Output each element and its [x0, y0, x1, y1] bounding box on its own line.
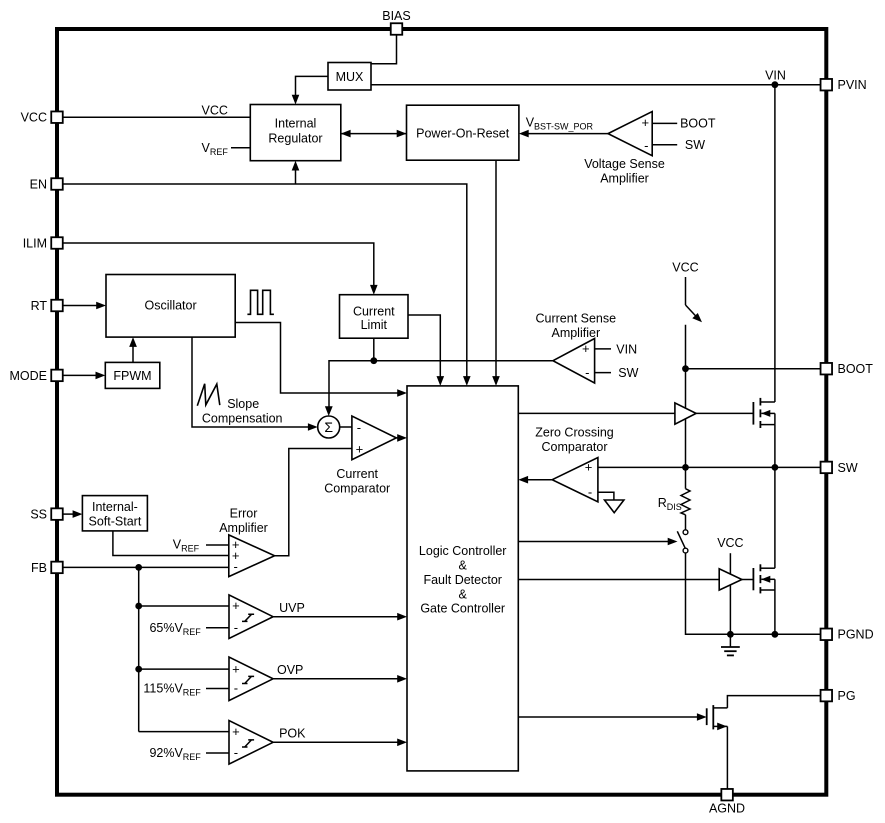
svg-text:Error: Error: [230, 507, 258, 521]
pin MODE: [10, 369, 63, 383]
svg-text:SW: SW: [618, 366, 638, 380]
pin SS: [30, 508, 62, 522]
svg-text:+: +: [356, 441, 364, 456]
svg-text:-: -: [644, 138, 648, 153]
svg-text:MODE: MODE: [10, 369, 48, 383]
svg-text:Regulator: Regulator: [268, 131, 322, 145]
node BOOT junction: [682, 365, 689, 372]
svg-text:ILIM: ILIM: [23, 236, 47, 250]
pin PVIN: [821, 78, 867, 92]
svg-text:Voltage Sense: Voltage Sense: [584, 157, 665, 171]
wire MODE to FPWM: [63, 372, 106, 380]
wire CSA - input SW: [595, 366, 639, 380]
wire high-side driver to Q1 gate: [696, 412, 753, 414]
pin RT: [31, 299, 63, 313]
op-amp Voltage Sense Amplifier: [584, 112, 665, 186]
svg-text:+: +: [585, 460, 593, 475]
wire logic to low-side driver: [518, 579, 719, 581]
svg-text:VCC: VCC: [21, 111, 47, 125]
svg-text:Zero Crossing: Zero Crossing: [535, 426, 614, 440]
fpwm FPWM: [105, 362, 160, 388]
svg-text:FPWM: FPWM: [113, 369, 151, 383]
switch VCC boot switch: [686, 305, 703, 322]
wire CSA output line to summing node: [325, 361, 553, 416]
svg-text:SW: SW: [685, 138, 705, 152]
wire error amp output to Current Comparator + input: [275, 449, 352, 556]
svg-text:EN: EN: [30, 177, 47, 191]
wire VSA + input BOOT: [652, 117, 716, 131]
switch discharge switch: [677, 530, 688, 553]
current limit block: [340, 295, 409, 339]
svg-text:+: +: [582, 341, 590, 356]
wire Current Limit to logic controller: [408, 315, 444, 386]
pin VCC: [21, 111, 63, 125]
svg-text:UVP: UVP: [279, 601, 305, 615]
wire Internal-Soft-Start to error amp middle input: [113, 531, 229, 556]
pin BOOT: [821, 362, 874, 376]
svg-text:Logic Controller: Logic Controller: [419, 544, 507, 558]
svg-text:-: -: [234, 620, 238, 635]
svg-text:Soft-Start: Soft-Start: [89, 514, 142, 528]
pin FB: [31, 561, 63, 575]
ground signal ground ZCC: [605, 500, 624, 513]
soft start block Internal-Soft-Start: [82, 496, 147, 531]
pin ILIM: [23, 236, 63, 250]
wire SW rail: [598, 466, 821, 468]
wire CSA + input VIN: [595, 342, 638, 356]
wire EN to Internal Regulator bottom: [292, 161, 300, 184]
transistor Q2 low-side MOSFET: [753, 467, 775, 634]
svg-text:Comparator: Comparator: [324, 481, 390, 495]
svg-text:Current Sense: Current Sense: [535, 311, 616, 325]
svg-text:Current: Current: [353, 305, 395, 319]
wire Oscillator slope output to summing node: [192, 337, 318, 431]
wire low-side driver to Q2 gate: [742, 579, 754, 581]
svg-text:OVP: OVP: [277, 663, 303, 677]
wire VCC pin to Internal Regulator: [63, 104, 251, 118]
wire logic to Q3 gate: [518, 713, 706, 721]
wire OVP output to logic controller: [273, 663, 407, 683]
wire FPWM to Oscillator: [129, 337, 137, 362]
svg-text:BOOT: BOOT: [838, 362, 874, 376]
ground power ground symbol: [721, 634, 740, 655]
node VIN junction: [765, 68, 786, 88]
wire FB branch to POK + input: [139, 731, 229, 733]
svg-text:POK: POK: [279, 727, 306, 741]
wire Internal Regulator to Power-On-Reset (bidirectional): [341, 130, 407, 138]
svg-text:-: -: [234, 559, 238, 574]
svg-text:+: +: [232, 724, 240, 739]
por U2 Power-On-Reset: [407, 105, 519, 160]
mux MUX: [328, 63, 371, 91]
op-amp Current Sense Amplifier: [535, 311, 616, 383]
svg-text:PG: PG: [838, 689, 856, 703]
wire Current Comparator output to logic controller: [396, 434, 407, 442]
svg-text:PGND: PGND: [838, 628, 874, 642]
svg-text:Compensation: Compensation: [202, 411, 283, 425]
svg-text:Slope: Slope: [227, 397, 259, 411]
pin PGND: [821, 628, 874, 642]
svg-text:RT: RT: [31, 299, 48, 313]
svg-text:Gate Controller: Gate Controller: [420, 602, 505, 616]
svg-text:VIN: VIN: [765, 68, 786, 82]
node PGND junction driver: [727, 631, 734, 638]
svg-text:VCC: VCC: [202, 104, 228, 118]
wire BOOT rail to BOOT pin: [686, 368, 821, 370]
wire SW to RDIS: [685, 467, 687, 488]
svg-text:Comparator: Comparator: [542, 440, 608, 454]
wire VCC to PGND rail through driver: [729, 553, 731, 634]
svg-text:AGND: AGND: [709, 802, 745, 816]
svg-text:-: -: [234, 745, 238, 760]
svg-text:-: -: [234, 681, 238, 696]
wire 65% VREF to UVP - input: [149, 621, 229, 637]
svg-text:Internal: Internal: [275, 116, 317, 130]
wire BIAS to MUX: [371, 35, 397, 64]
wire FB branch to UVP + input: [135, 603, 229, 610]
svg-text:Power-On-Reset: Power-On-Reset: [416, 126, 510, 140]
svg-text:BIAS: BIAS: [382, 9, 411, 23]
svg-text:-: -: [588, 485, 592, 500]
svg-text:VCC: VCC: [672, 260, 698, 274]
comparator UVP: [229, 595, 273, 639]
wire 92% VREF to POK - input: [149, 746, 229, 762]
svg-text:Amplifier: Amplifier: [219, 521, 268, 535]
node SW junction FET: [772, 464, 779, 471]
wire FB to error amp - input: [63, 566, 229, 568]
slope compensation sawtooth symbol: [197, 384, 282, 426]
wire VIN vertical to Q1 drain: [774, 85, 776, 402]
node SW junction RDIS: [682, 464, 689, 471]
comparator OVP: [229, 657, 273, 701]
svg-text:Internal-: Internal-: [92, 500, 138, 514]
svg-text:SS: SS: [30, 508, 47, 522]
node PGND junction FET: [772, 631, 779, 638]
wire SS to Internal-Soft-Start: [63, 510, 83, 518]
pin SW: [821, 461, 858, 475]
svg-text:VCC: VCC: [717, 536, 743, 550]
svg-text:PVIN: PVIN: [838, 78, 867, 92]
wire VCC stub: [685, 277, 687, 305]
wire logic to discharge switch: [518, 538, 677, 546]
wire Oscillator clock to logic controller: [235, 323, 407, 397]
svg-text:SW: SW: [838, 461, 858, 475]
comparator Zero Crossing Comparator: [535, 426, 614, 502]
wire MUX to PVIN (VIN rail): [371, 84, 821, 86]
svg-text:MUX: MUX: [336, 70, 364, 84]
wire POK output to logic controller: [273, 727, 407, 747]
pin BIAS: [382, 9, 411, 35]
wire RDIS to discharge switch: [685, 515, 687, 530]
logic controller block: [407, 386, 518, 771]
wire sigma to Current Comparator: [340, 426, 352, 428]
node junction Current Limit / CSA: [370, 357, 377, 364]
pin EN: [30, 177, 63, 191]
svg-text:BOOT: BOOT: [680, 117, 716, 131]
clock pulse symbol: [247, 290, 274, 314]
wire VREF to Internal Regulator: [202, 141, 251, 157]
oscillator OSC: [106, 275, 235, 338]
svg-text:-: -: [585, 365, 589, 380]
wire ZCC output to logic controller: [518, 476, 552, 484]
regulator U1 Internal Regulator: [250, 105, 340, 161]
wire VSA - input SW: [652, 138, 705, 152]
summing node sigma: [318, 416, 340, 438]
wire Q3 drain to PG pin: [727, 696, 820, 708]
svg-text:Current: Current: [336, 467, 378, 481]
node FB junction: [135, 564, 142, 571]
driver high-side gate driver: [675, 403, 696, 424]
comparator POK: [229, 721, 273, 765]
transistor Q1 high-side MOSFET: [753, 398, 775, 468]
wire Q3 source to AGND pin: [726, 726, 728, 789]
svg-text:Σ: Σ: [324, 419, 333, 435]
svg-text:Amplifier: Amplifier: [600, 172, 649, 186]
driver low-side gate driver: [719, 569, 742, 590]
svg-text:+: +: [232, 661, 240, 676]
svg-text:Amplifier: Amplifier: [551, 326, 600, 340]
wire FB branch to OVP + input: [135, 666, 229, 673]
svg-text:Oscillator: Oscillator: [145, 299, 197, 313]
wire 115% VREF to OVP - input: [143, 682, 229, 698]
wire logic to high-side driver: [518, 412, 675, 414]
pin PG: [821, 689, 856, 703]
svg-text:Limit: Limit: [361, 318, 388, 332]
wire POR output down to logic controller: [492, 160, 500, 386]
wire RT to Oscillator: [63, 302, 106, 310]
svg-text:VIN: VIN: [616, 342, 637, 356]
wire EN line: [63, 184, 471, 386]
svg-text:+: +: [232, 598, 240, 613]
wire UVP output to logic controller: [273, 601, 407, 621]
svg-text:Fault Detector: Fault Detector: [423, 573, 502, 587]
wire FB sense tree vertical: [138, 567, 140, 731]
wire ILIM to Current Limit: [63, 243, 378, 295]
svg-text:FB: FB: [31, 561, 47, 575]
svg-text:-: -: [357, 420, 361, 435]
wire boot switch to BOOT rail: [685, 325, 687, 468]
wire VREF to error amp + input: [173, 538, 229, 554]
wire VSA output to Power-On-Reset: [519, 115, 608, 137]
wire MUX to Internal Regulator: [292, 76, 328, 104]
transistor Q3 power good MOSFET: [707, 705, 728, 730]
svg-text:&: &: [459, 587, 468, 601]
comparator Current Comparator: [324, 416, 396, 495]
wire Current Limit bottom to CSA line: [373, 338, 375, 361]
op-amp Error Amplifier: [219, 507, 274, 577]
pin AGND: [709, 789, 745, 816]
wire ZCC - input to ground: [598, 492, 614, 500]
resistor RDIS: [658, 489, 690, 515]
wire discharge switch to PGND rail: [686, 553, 821, 634]
svg-text:&: &: [459, 559, 468, 573]
svg-text:+: +: [642, 115, 650, 130]
